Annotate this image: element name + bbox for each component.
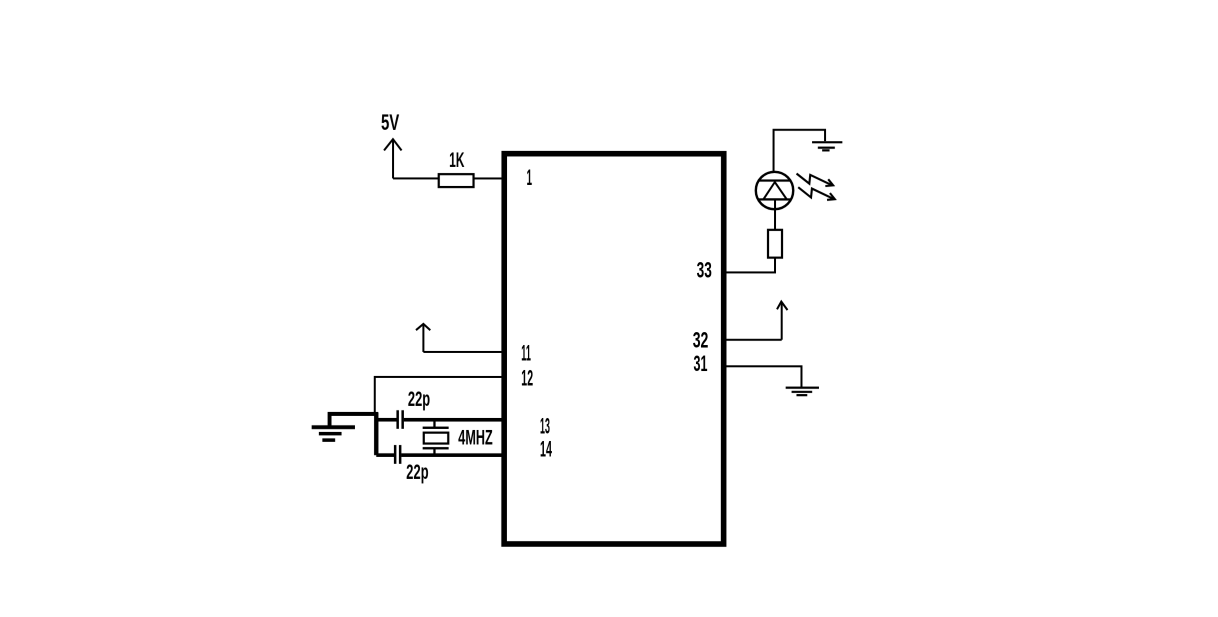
resistor R2 body [768,230,782,258]
LED D1 cathode bar [758,179,790,181]
crystal X1 stem bottom [433,448,435,455]
wire LED to resistor R2 [774,199,776,229]
svg-text:4MHZ: 4MHZ [458,425,493,449]
wire resistor to pin 1 [474,177,505,179]
crystal X1 body [424,433,449,444]
ground GND top right [812,142,842,150]
crystal X1 top plate [423,427,449,429]
svg-text:32: 32 [693,327,709,352]
resistor R1 1K body [439,174,474,187]
LED D1 emission arrow 1 [797,174,834,187]
wire LED anode to ground hook [774,130,826,172]
svg-text:13: 13 [540,413,550,438]
capacitor C1 plates [398,410,403,429]
svg-text:1K: 1K [449,149,464,172]
wire to C1 left plate [376,418,396,422]
LED D1 emission arrow 2 [798,187,835,200]
svg-text:1: 1 [527,165,533,190]
svg-text:31: 31 [693,351,707,376]
ground GND pin 31 [786,388,819,396]
svg-text:22p: 22p [406,461,428,484]
svg-text:22p: 22p [408,388,430,411]
wire to C2 left plate [376,453,394,457]
svg-text:33: 33 [697,258,712,283]
crystal X1 stem top [433,421,435,428]
wire pin 11 [423,351,502,353]
capacitor C2 plates [395,445,400,464]
svg-text:11: 11 [521,340,531,365]
svg-text:12: 12 [521,365,533,390]
wire C1 to pin 13 (thick) [404,418,502,422]
IC U1 body [504,154,724,544]
wire pin 32 [724,339,782,341]
svg-text:5V: 5V [381,110,399,135]
wire pin 12 [375,377,502,413]
node arrow pin 32 [777,302,788,340]
wire pin 31 to ground [724,366,802,387]
crystal X1 bottom plate [423,447,449,449]
LED D1 circle [756,172,793,209]
wire R2 to pin 33 [724,258,775,273]
LED D1 triangle [763,182,787,199]
power 5V arrow [384,139,402,178]
LED D1 base chord [758,198,791,200]
node arrow pin 11 [416,324,430,352]
svg-text:14: 14 [540,436,552,461]
wire ground bus (thick) [330,414,379,426]
wire C2 to pin 14 (thick) [401,453,502,457]
wire 5V to resistor [393,177,439,179]
wire trunk to capacitors (thick) [374,412,378,455]
ground GND left [312,427,355,440]
